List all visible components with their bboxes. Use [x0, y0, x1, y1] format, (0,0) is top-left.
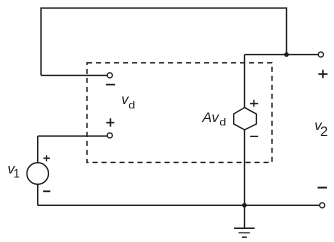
- Avd polarity minus: [250, 135, 258, 137]
- svg-text:d: d: [128, 101, 135, 112]
- node bottom output terminal: [320, 203, 325, 208]
- wire output top horizontal: [245, 54, 319, 56]
- node bottom rail junction: [242, 203, 247, 208]
- node output junction: [284, 52, 289, 57]
- svg-text:d: d: [219, 118, 226, 129]
- wire v1 top vertical: [37, 136, 39, 163]
- dependent source Avd (diamond): [234, 108, 257, 130]
- wire top feedback horizontal: [41, 7, 287, 9]
- node noninverting input terminal: [107, 133, 112, 138]
- node output terminal: [318, 52, 323, 57]
- svg-text:2: 2: [320, 123, 328, 139]
- v2 polarity plus: [318, 70, 327, 78]
- svg-text:1: 1: [13, 168, 19, 180]
- wire dependent source bottom vertical to ground: [244, 130, 246, 228]
- v2 polarity minus: [318, 187, 327, 189]
- vd polarity minus: [106, 84, 115, 86]
- Avd polarity plus: [250, 100, 258, 107]
- wire to noninverting input terminal: [38, 135, 108, 137]
- vd polarity plus: [106, 118, 114, 126]
- wire v1 bottom vertical: [37, 184, 39, 205]
- wire to inverting input terminal: [41, 74, 107, 76]
- node inverting input terminal: [107, 73, 112, 78]
- v1 polarity plus: [43, 155, 50, 161]
- ground: [234, 228, 255, 237]
- wire top feedback left vertical: [40, 7, 42, 75]
- v1 polarity minus: [43, 190, 50, 192]
- wire dependent source top vertical: [244, 55, 246, 108]
- op-amp model dashed box: [87, 63, 272, 163]
- svg-text:Av: Av: [201, 110, 219, 126]
- wire top feedback right vertical: [286, 7, 288, 54]
- wire bottom rail: [38, 204, 320, 206]
- voltage source v1: [27, 163, 49, 185]
